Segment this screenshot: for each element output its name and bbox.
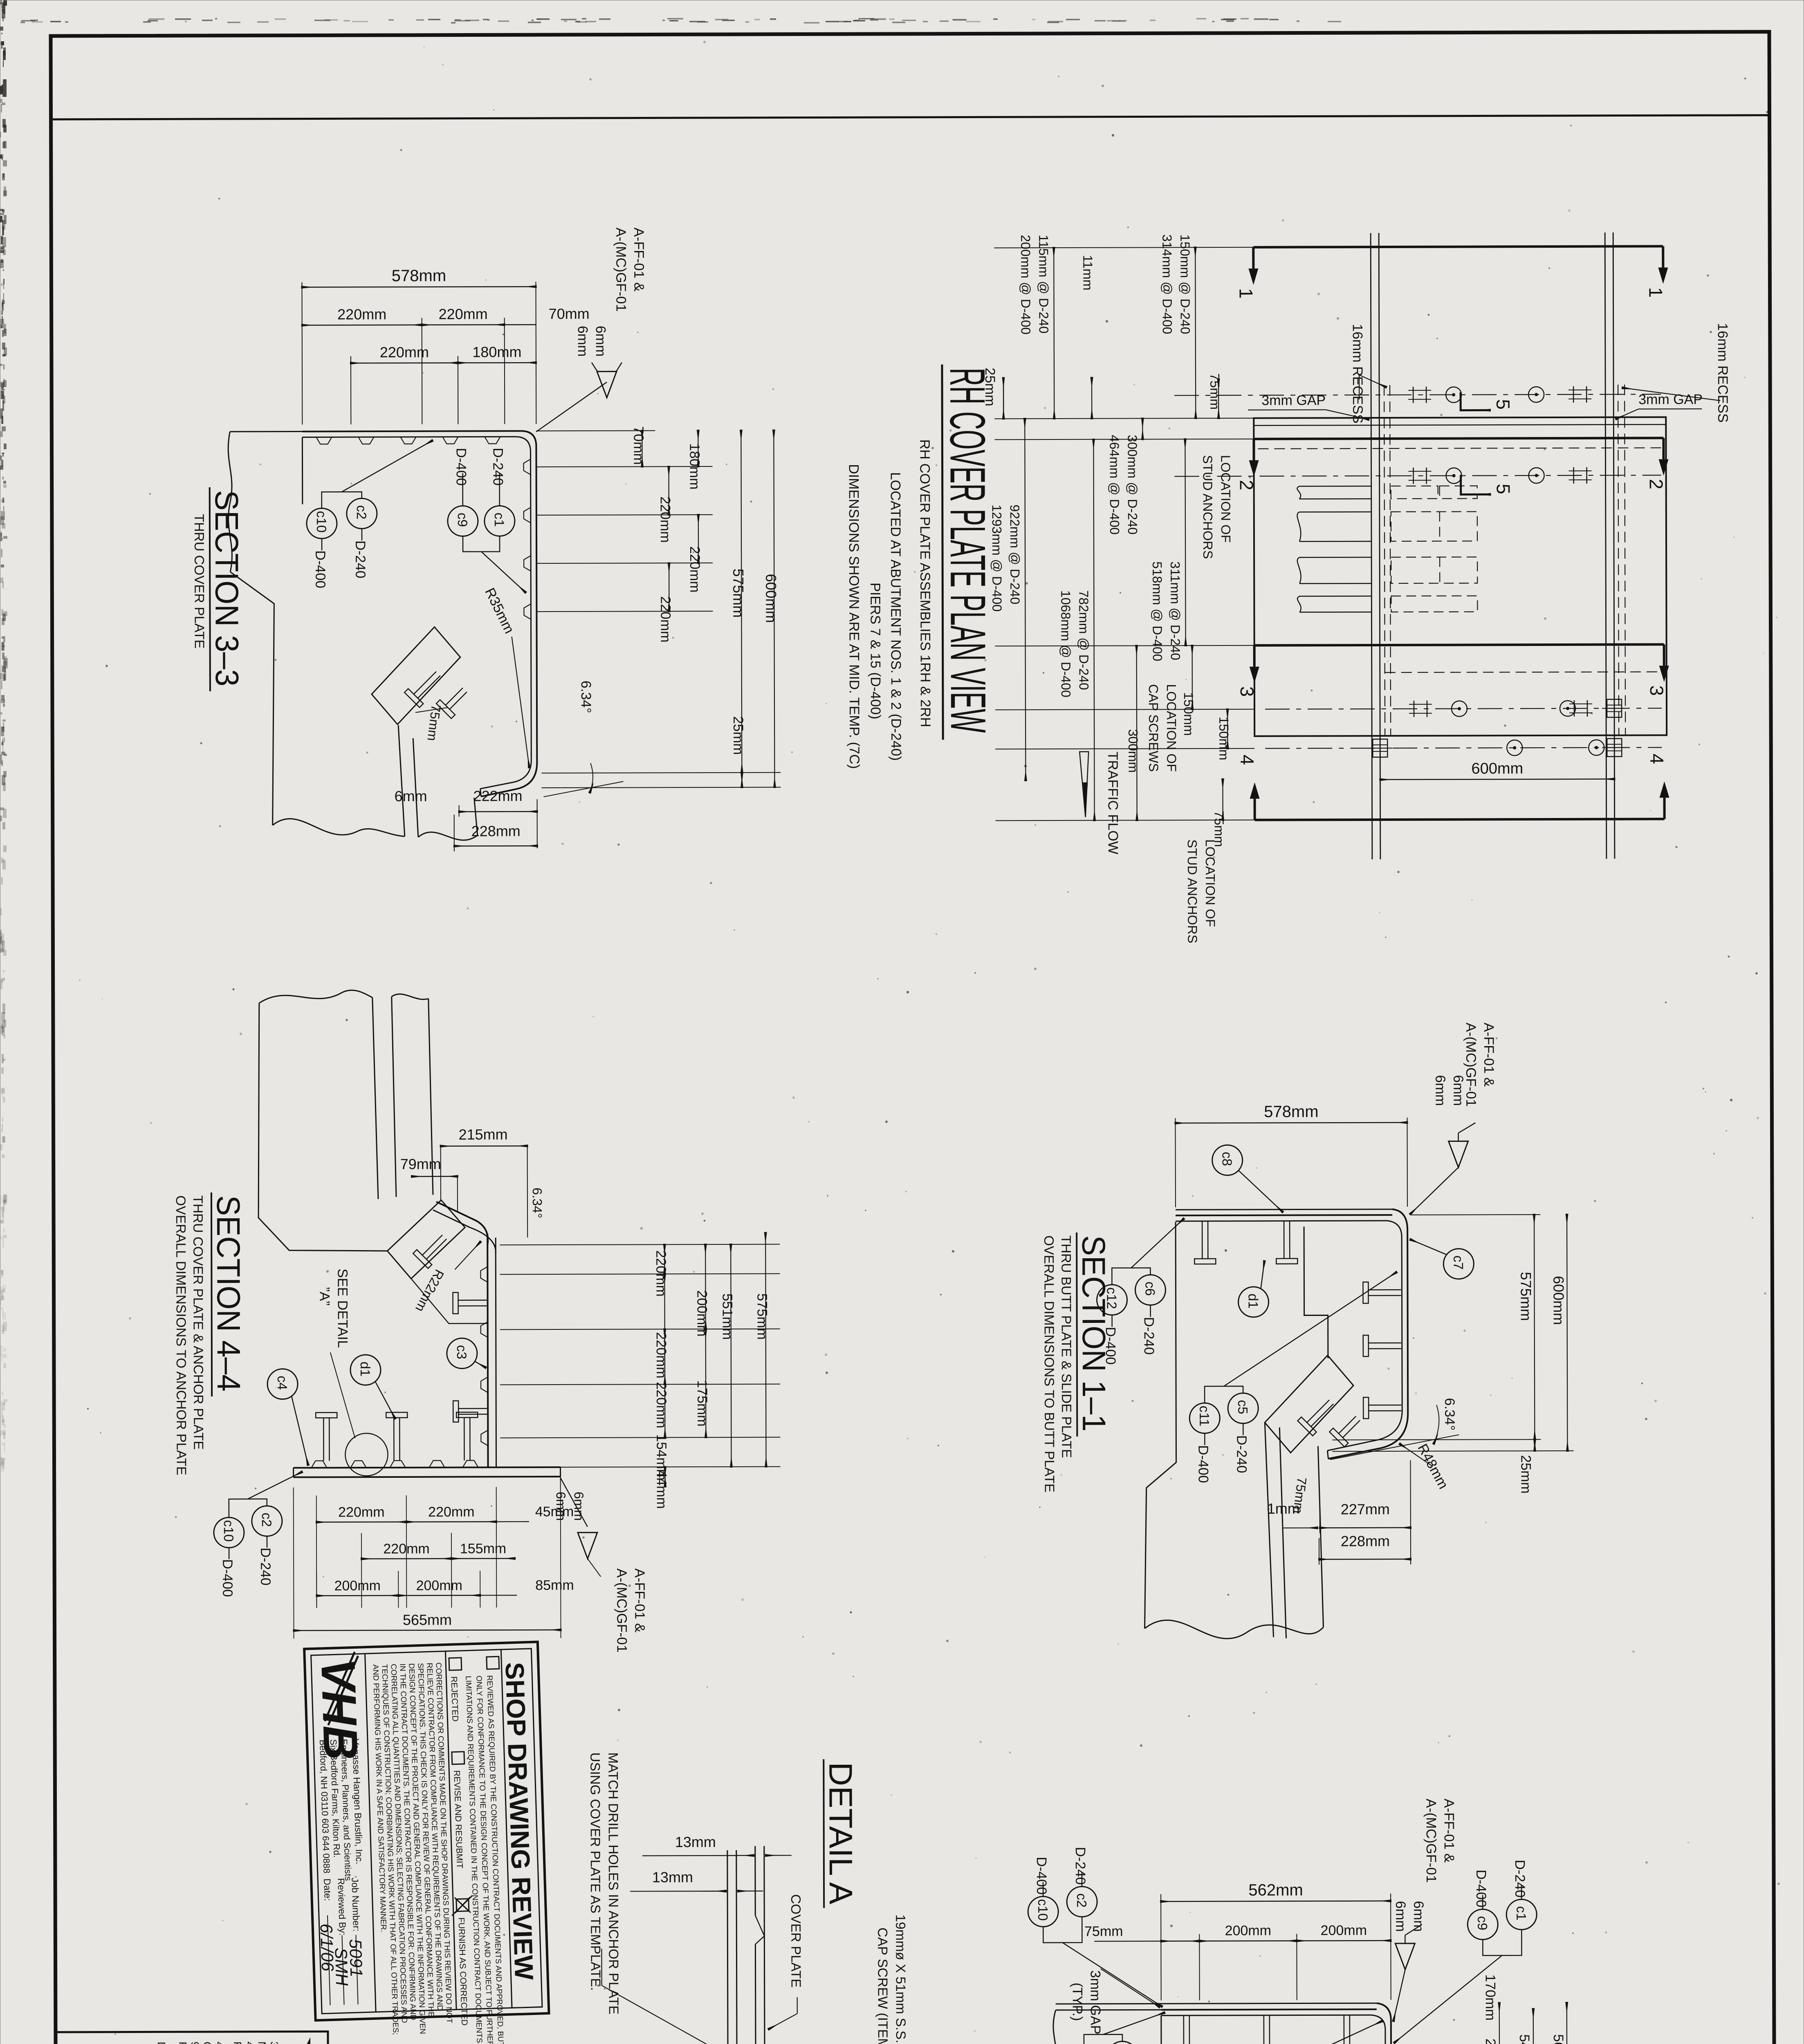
svg-text:569mm: 569mm xyxy=(1550,2034,1566,2044)
svg-text:D-240: D-240 xyxy=(1073,1847,1088,1885)
svg-text:c8: c8 xyxy=(1220,1152,1235,1166)
svg-text:220mm: 220mm xyxy=(338,1504,384,1520)
section 4-4: label c3 xyxy=(447,1338,477,1368)
svg-text:4: 4 xyxy=(1236,755,1258,765)
svg-text:952.368.3000: 952.368.3000 xyxy=(189,2042,201,2044)
svg-text:220mm: 220mm xyxy=(428,1504,474,1520)
section 2-2: dim 562mm xyxy=(1160,1894,1162,2000)
plan view: row 4 fasteners xyxy=(1507,740,1522,755)
svg-text:LOCATION OF: LOCATION OF xyxy=(1218,455,1234,543)
svg-text:85mm: 85mm xyxy=(535,1578,574,1593)
section 3-3: cover plate top edge xyxy=(302,431,521,431)
svg-text:220mm: 220mm xyxy=(383,1541,429,1557)
plan view: dashed anchor slots xyxy=(1391,486,1438,499)
svg-text:150mm: 150mm xyxy=(1181,692,1196,736)
svg-text:215mm: 215mm xyxy=(458,1126,507,1143)
svg-text:Job Number:: Job Number: xyxy=(350,1878,362,1932)
section 3-3: labels c9 c1 bracket leader xyxy=(463,536,500,551)
svg-text:300 E. CHERRY STREET: 300 E. CHERRY STREET xyxy=(268,2042,281,2044)
section 1-1: labels c11 c5 xyxy=(1189,1403,1220,1433)
svg-text:D-240: D-240 xyxy=(490,448,505,486)
svg-text:5: 5 xyxy=(1492,399,1514,410)
svg-text:c2: c2 xyxy=(259,1513,274,1527)
svg-text:115mm @ D-240: 115mm @ D-240 xyxy=(1036,235,1051,334)
plan view: traffic flow arrow xyxy=(1079,752,1088,817)
svg-text:(TYP.): (TYP.) xyxy=(1070,1983,1085,2021)
plan view: joint edge line left xyxy=(1371,233,1372,859)
section 4-4: bottom dim rows xyxy=(316,1495,317,1608)
section 1-1: labels c12 c6 xyxy=(1097,1285,1127,1315)
section 1-1: dim 578mm xyxy=(1175,1118,1176,1207)
section 4-4: cover plate angled top with R22 bend xyxy=(436,1201,488,1245)
svg-text:227mm: 227mm xyxy=(1341,1501,1390,1517)
svg-text:220mm: 220mm xyxy=(653,1382,669,1428)
svg-text:Date:: Date: xyxy=(322,1878,333,1901)
scan artifact: top edge dotted line xyxy=(20,18,1341,24)
svg-text:551mm: 551mm xyxy=(720,1293,735,1340)
svg-text:DSBROWN.COM: DSBROWN.COM xyxy=(155,2042,168,2044)
svg-text:25mm: 25mm xyxy=(730,716,746,755)
section 3-3: cover plate bent right leg with R35 bend xyxy=(480,431,537,796)
svg-text:3: 3 xyxy=(1646,685,1667,696)
svg-text:Reviewed By:: Reviewed By: xyxy=(336,1878,348,1936)
svg-text:228mm: 228mm xyxy=(471,823,521,839)
svg-text:220mm: 220mm xyxy=(337,306,386,323)
svg-text:1: 1 xyxy=(1645,287,1667,298)
section 4-4: labels c10 c2 xyxy=(214,1517,244,1548)
svg-text:d1: d1 xyxy=(1246,1293,1261,1309)
section 3-3: anchor studs from plate tip xyxy=(404,666,446,707)
svg-text:220mm: 220mm xyxy=(439,305,488,322)
section 4-4: upper anchor stud xyxy=(413,1229,452,1269)
detail A: cover plate vertical pair with break xyxy=(754,1846,756,1916)
section 3-3: dim 578mm xyxy=(301,282,303,425)
svg-text:c9: c9 xyxy=(455,513,470,527)
svg-text:THRU BUTT PLATE & SLIDE PLATE: THRU BUTT PLATE & SLIDE PLATE xyxy=(1059,1235,1074,1458)
section 3-3: concrete break wavy left xyxy=(228,432,232,572)
section 4-4: label c4 xyxy=(267,1369,298,1399)
section 1-1: butt plate step outline xyxy=(1304,1226,1328,1358)
svg-text:575mm: 575mm xyxy=(1517,1272,1534,1321)
stamp divider logo band xyxy=(365,1654,376,2012)
svg-text:LOCATED AT ABUTMENT NOS. 1 & 2: LOCATED AT ABUTMENT NOS. 1 & 2 (D-240) xyxy=(888,472,904,761)
svg-text:16mm RECESS: 16mm RECESS xyxy=(1715,323,1731,423)
detail A: anchor plate vertical pair xyxy=(727,1850,728,2044)
svg-text:170mm: 170mm xyxy=(1483,1974,1498,2020)
section 4-4: screw symbols right of leg xyxy=(458,1300,487,1301)
plan view: stud anchor row 4 centerline xyxy=(1265,747,1662,748)
svg-text:2: 2 xyxy=(1646,479,1667,489)
section 3-3: labels c10 c2 bracket leader xyxy=(322,492,362,508)
svg-text:464mm @ D-400: 464mm @ D-400 xyxy=(1107,435,1122,535)
D.S. Brown logo swoosh xyxy=(278,2037,310,2044)
plan view: recess dashed boundary right xyxy=(1618,385,1619,735)
section 2-2: cover plate right leg with R19 bend xyxy=(1313,2003,1391,2044)
section 1-1: anchor plate angled xyxy=(1265,1355,1354,1453)
svg-text:c5: c5 xyxy=(1235,1400,1250,1414)
section 4-4: dim extension lines right xyxy=(500,1244,780,1245)
svg-text:782mm @ D-240: 782mm @ D-240 xyxy=(1076,590,1091,690)
svg-text:200mm: 200mm xyxy=(334,1578,381,1594)
svg-text:LOCATION OF: LOCATION OF xyxy=(1164,684,1179,772)
plan view: row 3 fasteners xyxy=(1452,701,1467,717)
section 1-1: anchor studs from plate tip xyxy=(1298,1394,1339,1436)
section 2-2: dims 75/200/200 xyxy=(1199,1934,1200,2000)
section 2-2: labels c10 c2 xyxy=(1028,1896,1058,1927)
plan view: row 4 screws xyxy=(1414,701,1415,717)
plan view: section cut 5 arrows xyxy=(1461,392,1490,410)
svg-text:3mm GAP: 3mm GAP xyxy=(1638,392,1703,407)
plan view: section cut line 4-4 xyxy=(1255,819,1665,820)
plan view: recess dashed top edge xyxy=(1258,448,1662,448)
svg-text:3mm GAP: 3mm GAP xyxy=(1088,1970,1103,2035)
svg-text:A-FF-01 &: A-FF-01 & xyxy=(632,1568,647,1632)
svg-text:600mm: 600mm xyxy=(763,574,779,623)
stamp divider title band xyxy=(501,1650,512,2008)
svg-text:75mm: 75mm xyxy=(1084,1924,1123,1939)
plan view: cover plate outline xyxy=(1254,417,1667,736)
svg-text:6mm: 6mm xyxy=(1432,1075,1448,1106)
plan view: cover plate top double edge xyxy=(1254,424,1666,425)
section 3-3: wall below xyxy=(398,725,405,836)
svg-text:150mm @ D-240: 150mm @ D-240 xyxy=(1178,234,1193,334)
svg-text:REJECTED: REJECTED xyxy=(449,1676,460,1722)
svg-text:CAP SCREW (ITEM D3): CAP SCREW (ITEM D3) xyxy=(875,1927,891,2044)
svg-text:LOCATION OF: LOCATION OF xyxy=(1203,839,1218,927)
section 3-3: label c10 xyxy=(307,508,337,538)
svg-text:13mm: 13mm xyxy=(652,1869,693,1885)
plan view: section cut line 2-2 xyxy=(1254,438,1663,439)
svg-text:CAP SCREWS: CAP SCREWS xyxy=(1146,684,1161,772)
svg-text:MATCH DRILL HOLES IN ANCHOR PL: MATCH DRILL HOLES IN ANCHOR PLATE xyxy=(606,1753,622,2015)
svg-text:44mm: 44mm xyxy=(654,1470,669,1509)
svg-text:2: 2 xyxy=(1236,480,1257,491)
plan view: section cut line 3-3 xyxy=(1254,644,1664,645)
section 3-3: dim row 220/220/70 xyxy=(422,318,423,424)
section 1-1: cap screws on leg xyxy=(1369,1289,1401,1291)
svg-text:600mm: 600mm xyxy=(1471,760,1523,777)
svg-text:R35mm: R35mm xyxy=(482,585,517,636)
svg-text:d1: d1 xyxy=(358,1362,373,1377)
svg-text:6.34°: 6.34° xyxy=(578,681,594,713)
svg-text:220mm: 220mm xyxy=(657,496,673,542)
svg-text:6mm: 6mm xyxy=(593,326,608,357)
svg-text:A-(MC)GF-01: A-(MC)GF-01 xyxy=(613,228,629,312)
svg-text:3: 3 xyxy=(1236,686,1258,697)
svg-text:PIERS 7 & 15 (D-400): PIERS 7 & 15 (D-400) xyxy=(867,583,883,719)
plan view: extension lines left xyxy=(994,247,1253,248)
section 1-1: wall below xyxy=(1265,1423,1273,1637)
svg-text:922mm @ D-240: 922mm @ D-240 xyxy=(1007,504,1023,604)
svg-text:NORTH BALTIMORE, OHIO 45872: NORTH BALTIMORE, OHIO 45872 xyxy=(256,2042,269,2044)
svg-text:SECTION 3–3: SECTION 3–3 xyxy=(209,490,245,686)
svg-text:200mm: 200mm xyxy=(1225,1923,1271,1939)
section 1-1: label c7 xyxy=(1443,1249,1474,1279)
stamp checkbox furnish (checked) xyxy=(456,1899,469,1912)
section 3-3: label c1 xyxy=(485,506,515,536)
svg-text:200mm: 200mm xyxy=(416,1578,462,1594)
section 2-2: slide plate top edge xyxy=(1161,2009,1377,2010)
plan view: cap screw row 3 centerline xyxy=(1265,708,1662,709)
section 2-2: studs below plate xyxy=(1183,2015,1185,2044)
svg-text:222mm: 222mm xyxy=(473,787,522,804)
svg-text:c2: c2 xyxy=(354,505,369,520)
plan view: 600mm dimension xyxy=(1380,779,1614,780)
svg-text:314mm @ D-400: 314mm @ D-400 xyxy=(1160,234,1175,334)
svg-text:c10: c10 xyxy=(221,1520,236,1542)
svg-text:D-240: D-240 xyxy=(1141,1317,1157,1355)
svg-text:”A”: ”A” xyxy=(316,1287,332,1305)
svg-text:6mm: 6mm xyxy=(572,1492,586,1521)
section 4-4: studs on anchor plate xyxy=(312,1461,327,1468)
svg-text:6/1/06: 6/1/06 xyxy=(317,1923,338,1972)
plan view: row 1 fasteners xyxy=(1413,387,1414,403)
svg-text:A-(MC)GF-01: A-(MC)GF-01 xyxy=(1423,1799,1439,1883)
svg-text:220mm: 220mm xyxy=(653,1250,669,1296)
section 1-1: butt plate top edge xyxy=(1176,1215,1392,1215)
section 4-4: tall anchor studs xyxy=(323,1418,324,1461)
svg-text:600mm: 600mm xyxy=(1550,1276,1567,1325)
svg-text:D-240: D-240 xyxy=(1512,1860,1528,1898)
section 2-2: labels c9 c1 xyxy=(1467,1909,1498,1939)
svg-text:OVERALL DIMENSIONS TO BUTT PLA: OVERALL DIMENSIONS TO BUTT PLATE xyxy=(1041,1235,1057,1493)
plan view: stud anchor row 2 centerline xyxy=(1175,475,1661,476)
svg-text:180mm: 180mm xyxy=(687,443,702,489)
svg-text:STUD ANCHORS: STUD ANCHORS xyxy=(1185,839,1200,943)
svg-text:R22mm: R22mm xyxy=(413,1267,447,1314)
svg-text:D-240: D-240 xyxy=(352,540,368,578)
svg-text:6.34°: 6.34° xyxy=(1442,1398,1457,1431)
section 2-2: concrete break wavy left xyxy=(1053,2010,1060,2044)
svg-text:SECTION 1–1: SECTION 1–1 xyxy=(1075,1235,1112,1432)
section 3-3: anchor plate angled xyxy=(372,627,461,725)
svg-text:220mm: 220mm xyxy=(657,596,673,642)
D.S. Brown title box xyxy=(56,2031,328,2044)
plan view: stud anchor bars with wavy break ends xyxy=(1299,486,1371,487)
section 3-3: blockout outline xyxy=(302,437,303,504)
section 4-4: anchor plate horizontal xyxy=(294,1467,561,1468)
svg-text:D-400: D-400 xyxy=(453,448,469,486)
section 3-3: weld symbol leader xyxy=(536,382,607,432)
svg-text:DETAIL A: DETAIL A xyxy=(822,1762,859,1905)
section 1-1: studs below plate xyxy=(1202,1221,1203,1259)
svg-text:155mm: 155mm xyxy=(460,1541,506,1556)
section 4-4: countersunk marks on leg xyxy=(480,1266,487,1282)
svg-text:6mm: 6mm xyxy=(554,1492,568,1521)
svg-text:6mm: 6mm xyxy=(575,326,590,357)
stamp checkbox reviewed xyxy=(487,1656,499,1669)
svg-text:79mm: 79mm xyxy=(400,1156,441,1172)
section 3-3: countersunk screw marks on top plate xyxy=(316,437,332,444)
svg-text:D-400: D-400 xyxy=(1195,1445,1211,1483)
svg-text:575mm: 575mm xyxy=(754,1293,770,1340)
svg-text:200mm @ D-400: 200mm @ D-400 xyxy=(1018,235,1033,334)
section 4-4: cover plate leg xyxy=(487,1233,488,1467)
section 1-1: concrete left boundary xyxy=(1144,1222,1176,1628)
section 3-3: stud row extension lines xyxy=(536,466,713,467)
section 3-3: label c2 xyxy=(347,498,377,529)
svg-text:6mm: 6mm xyxy=(1450,1075,1466,1106)
section 1-1: label d1 xyxy=(1238,1287,1268,1317)
svg-text:A-FF-01 &: A-FF-01 & xyxy=(1441,1799,1457,1863)
svg-text:1068mm @ D-400: 1068mm @ D-400 xyxy=(1058,590,1073,697)
svg-text:R48mm: R48mm xyxy=(1414,1441,1451,1492)
plan view: recess dashed boundary left xyxy=(1384,385,1385,735)
section 1-1: label c8 xyxy=(1212,1145,1243,1175)
svg-text:REVISE AND RESUBMIT: REVISE AND RESUBMIT xyxy=(452,1770,464,1869)
plan view: row 2 fasteners xyxy=(1413,468,1414,484)
section 4-4: label d1 xyxy=(350,1355,381,1385)
svg-text:DIMENSIONS SHOWN ARE AT MID. T: DIMENSIONS SHOWN ARE AT MID. TEMP. (7C) xyxy=(846,464,862,769)
svg-text:3mm GAP: 3mm GAP xyxy=(1261,392,1326,408)
svg-text:D-400: D-400 xyxy=(1034,1857,1049,1895)
svg-text:150mm: 150mm xyxy=(1216,717,1231,760)
svg-text:c10: c10 xyxy=(314,511,329,533)
stamp checkbox rejected xyxy=(449,1658,462,1670)
svg-text:CHASKA, MINNESOTA 55318: CHASKA, MINNESOTA 55318 xyxy=(201,2042,214,2044)
svg-text:200mm: 200mm xyxy=(1483,2038,1498,2044)
svg-text:c11: c11 xyxy=(1197,1405,1212,1426)
svg-text:A-FF-01 &: A-FF-01 & xyxy=(631,227,646,291)
section 1-1: slide plate right leg with R48 bend xyxy=(1328,1209,1408,1459)
svg-text:228mm: 228mm xyxy=(1341,1533,1390,1549)
svg-text:c7: c7 xyxy=(1451,1255,1466,1270)
section 3-3: label c9 xyxy=(448,506,478,536)
svg-text:THRU COVER PLATE & ANCHOR PLAT: THRU COVER PLATE & ANCHOR PLATE xyxy=(191,1195,206,1450)
section 3-3: wall break wavy bottom xyxy=(273,818,405,837)
svg-text:c4: c4 xyxy=(275,1376,290,1390)
svg-text:70mm: 70mm xyxy=(631,426,646,465)
svg-text:STUD ANCHORS: STUD ANCHORS xyxy=(1200,455,1216,559)
svg-text:RH COVER PLATE ASSEMBLIES 1RH: RH COVER PLATE ASSEMBLIES 1RH & 2RH xyxy=(917,439,933,727)
svg-text:D-400: D-400 xyxy=(1473,1869,1489,1907)
svg-text:c3: c3 xyxy=(454,1345,469,1359)
svg-text:180mm: 180mm xyxy=(472,343,521,360)
svg-text:TRAFFIC FLOW: TRAFFIC FLOW xyxy=(1105,752,1121,854)
svg-text:565mm: 565mm xyxy=(403,1611,452,1628)
svg-text:575mm: 575mm xyxy=(730,569,747,618)
svg-text:220mm: 220mm xyxy=(653,1332,669,1378)
svg-text:1mm: 1mm xyxy=(1267,1500,1300,1517)
section 4-4: wall above xyxy=(372,997,378,1199)
svg-text:USING COVER PLATE AS TEMPLATE.: USING COVER PLATE AS TEMPLATE. xyxy=(588,1753,603,1991)
VHB shop drawing review stamp xyxy=(304,1642,550,2044)
svg-text:518mm @ D-400: 518mm @ D-400 xyxy=(1150,561,1165,661)
svg-text:c1: c1 xyxy=(1514,1906,1529,1921)
svg-text:THRU COVER PLATE: THRU COVER PLATE xyxy=(192,514,207,649)
svg-text:OVERALL DIMENSIONS TO ANCHOR P: OVERALL DIMENSIONS TO ANCHOR PLATE xyxy=(173,1195,189,1475)
plan view: section cut line 1-1 xyxy=(1253,246,1663,247)
svg-text:300mm @ D-240: 300mm @ D-240 xyxy=(1125,435,1140,534)
plan view: stud anchor row 1 centerline xyxy=(1174,394,1661,395)
svg-text:545mm: 545mm xyxy=(1517,2034,1532,2044)
plan view: joint edge line right xyxy=(1605,233,1607,859)
svg-text:A-(MC)GF-01: A-(MC)GF-01 xyxy=(614,1569,630,1653)
svg-text:4: 4 xyxy=(1646,753,1667,764)
svg-text:13mm: 13mm xyxy=(675,1833,716,1850)
section 4-4: wavy break top xyxy=(259,990,372,1003)
svg-text:SECTION 4–4: SECTION 4–4 xyxy=(210,1195,247,1392)
section 1-1: wall break bottom xyxy=(1144,1620,1323,1639)
section 3-3: concrete deck surface left xyxy=(230,431,302,432)
svg-text:6.34°: 6.34° xyxy=(530,1188,545,1218)
svg-text:300mm: 300mm xyxy=(1126,729,1140,773)
svg-text:19mmø X 51mm S.S. CTSK. SCKT.: 19mmø X 51mm S.S. CTSK. SCKT. HEAD xyxy=(893,1914,909,2044)
svg-text:D-400: D-400 xyxy=(312,550,328,588)
svg-text:6mm: 6mm xyxy=(1393,1901,1408,1932)
section 4-4: blockout outline upper xyxy=(258,1003,387,1251)
svg-text:A-FF-01 &: A-FF-01 & xyxy=(1481,1022,1497,1087)
svg-text:c9: c9 xyxy=(1475,1916,1490,1930)
svg-text:FAX: 419.257.0332: FAX: 419.257.0332 xyxy=(231,2042,244,2044)
svg-text:5: 5 xyxy=(1493,484,1514,494)
svg-text:70mm: 70mm xyxy=(549,305,590,322)
stamp checkbox revise xyxy=(452,1752,464,1764)
svg-text:175mm: 175mm xyxy=(694,1380,710,1426)
section 4-4: weld flag bottom xyxy=(561,1478,588,1527)
svg-text:220mm: 220mm xyxy=(687,546,702,592)
svg-text:200mm: 200mm xyxy=(1321,1923,1367,1938)
svg-text:D-240: D-240 xyxy=(1234,1435,1249,1473)
svg-text:4201 NOREX DRIVE: 4201 NOREX DRIVE xyxy=(213,2042,226,2044)
svg-text:c10: c10 xyxy=(1035,1899,1050,1921)
stamp divider paragraph band xyxy=(445,1651,456,2010)
section 4-4: upper anchor plate angled xyxy=(387,1200,465,1279)
svg-text:75mm: 75mm xyxy=(1207,373,1222,410)
svg-text:SEE DETAIL: SEE DETAIL xyxy=(334,1269,350,1348)
svg-text:16mm RECESS: 16mm RECESS xyxy=(1350,324,1366,424)
svg-text:D-240: D-240 xyxy=(258,1548,273,1586)
svg-text:11mm: 11mm xyxy=(1080,255,1095,291)
svg-text:200mm: 200mm xyxy=(694,1290,710,1336)
svg-text:FAX: 952.448.7000: FAX: 952.448.7000 xyxy=(177,2042,189,2044)
scan artifact: left edge dark streak xyxy=(0,0,8,1472)
svg-text:578mm: 578mm xyxy=(1264,1103,1318,1121)
svg-text:c6: c6 xyxy=(1142,1282,1158,1296)
svg-text:419.257.3561: 419.257.3561 xyxy=(244,2042,256,2044)
svg-text:1: 1 xyxy=(1236,288,1257,299)
section 3-3: countersunk screw marks on right leg xyxy=(524,459,531,475)
svg-text:6mm: 6mm xyxy=(394,788,427,805)
svg-text:578mm: 578mm xyxy=(392,267,446,285)
border frame inner margin line xyxy=(51,115,1769,119)
svg-text:25mm: 25mm xyxy=(1518,1455,1533,1494)
svg-text:COVER PLATE: COVER PLATE xyxy=(788,1894,804,1988)
svg-text:c2: c2 xyxy=(1074,1893,1089,1907)
plan view: dim 25mm top xyxy=(1003,378,1004,419)
svg-text:562mm: 562mm xyxy=(1248,1881,1303,1899)
svg-text:c1: c1 xyxy=(492,513,507,527)
svg-text:D-400: D-400 xyxy=(220,1559,235,1597)
svg-text:220mm: 220mm xyxy=(380,344,429,361)
section 3-3: dim row 220/180 xyxy=(350,356,351,424)
svg-text:RH COVER PLATE PLAN VIEW: RH COVER PLATE PLAN VIEW xyxy=(940,368,996,733)
